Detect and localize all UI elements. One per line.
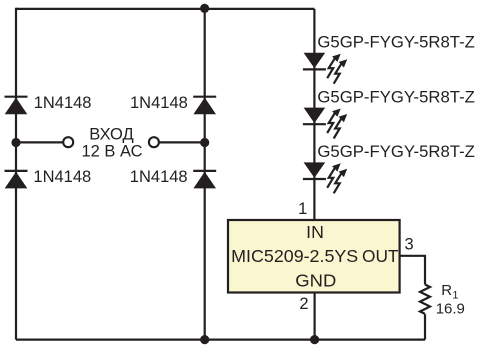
svg-text:2: 2 [299,295,308,313]
svg-text:16.9: 16.9 [436,301,465,318]
node junction right branch / input [200,138,209,147]
diode D1 1N4148 top left [5,97,28,115]
node junction GND / bottom bus [310,335,319,344]
svg-text:ВХОД: ВХОД [89,125,133,143]
svg-text:1: 1 [298,200,307,218]
wire LED string / IN pin 1 [313,9,315,220]
svg-text:1N4148: 1N4148 [34,94,92,112]
svg-text:12 В АС: 12 В АС [81,143,142,161]
terminal input left [63,137,73,147]
svg-text:R: R [441,282,452,299]
node junction left branch / input [11,138,20,147]
svg-text:GND: GND [295,271,336,291]
LED1 emission arrows [327,54,347,84]
LED2 G5GP-FYGY-5R8T-Z [303,108,326,125]
diode D2 1N4148 bottom left [5,171,28,189]
svg-text:OUT: OUT [362,246,399,266]
wire right bridge branch [204,9,206,340]
wire input left [16,141,63,143]
wire GND pin 2 [314,293,316,340]
wire OUT pin 3 to resistor [400,256,425,285]
diode D4 1N4148 bottom right [193,171,216,189]
node junction top bus / right branch [200,4,209,13]
svg-text:G5GP-FYGY-5R8T-Z: G5GP-FYGY-5R8T-Z [317,143,475,161]
wire left bridge branch [15,8,17,340]
svg-text:1N4148: 1N4148 [130,94,188,112]
wire bottom bus [16,339,425,341]
regulator U1 MIC5209-2.5YS body [228,220,400,293]
wire resistor bottom lead [424,314,426,340]
svg-text:1N4148: 1N4148 [130,168,188,186]
label input ВХОД 12 В АС [81,125,142,160]
LED3 emission arrows [327,163,347,193]
svg-text:MIC5209-2.5YS: MIC5209-2.5YS [231,246,358,266]
svg-text:G5GP-FYGY-5R8T-Z: G5GP-FYGY-5R8T-Z [317,34,475,52]
label R1 [441,282,458,302]
node junction right branch / bottom bus [200,335,209,344]
terminal input right [149,137,159,147]
resistor R1 [420,285,430,314]
LED2 emission arrows [327,109,347,139]
svg-text:3: 3 [405,236,414,254]
LED1 G5GP-FYGY-5R8T-Z [303,53,326,70]
diode D3 1N4148 top right [193,97,216,115]
svg-text:1N4148: 1N4148 [33,168,91,186]
svg-text:G5GP-FYGY-5R8T-Z: G5GP-FYGY-5R8T-Z [317,88,475,106]
wire input right [159,141,205,143]
wire top bus [16,8,314,10]
LED3 G5GP-FYGY-5R8T-Z [303,162,326,179]
svg-text:IN: IN [306,222,324,242]
